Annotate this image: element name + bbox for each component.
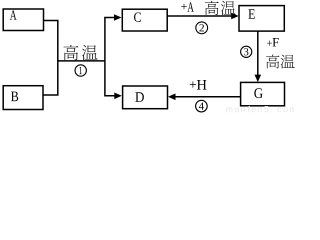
box G: [241, 82, 285, 105]
label gaowen for reaction 3: [266, 55, 295, 69]
box A: [3, 9, 43, 31]
label gaowen for reaction 2: [205, 1, 236, 15]
label +F: [267, 41, 272, 46]
letter E: [248, 9, 254, 19]
box C: [122, 9, 167, 31]
letter A: [10, 10, 17, 19]
label +H: [190, 81, 196, 87]
arrowhead into D right edge: [168, 94, 176, 101]
watermark manfen5.com: [226, 106, 296, 113]
arrowhead into G: [255, 75, 262, 83]
label circled 1: [75, 65, 86, 76]
letter C: [134, 12, 141, 21]
box B: [3, 86, 43, 110]
box E: [239, 6, 284, 32]
label circled 3: [241, 46, 252, 57]
wire: A and B to left trunk: [43, 21, 58, 96]
label circled 2: [196, 22, 208, 34]
wire: middle trunk (reaction 1): [57, 60, 105, 62]
box D: [123, 86, 168, 109]
wire: G to D (reaction 4): [174, 96, 240, 98]
letter B: [11, 92, 18, 102]
label +A: [181, 4, 187, 10]
label gaowen (hi-temp) for reaction 1: [64, 45, 98, 60]
letter D: [135, 92, 144, 102]
letter G: [254, 88, 262, 98]
label circled 4: [196, 100, 208, 112]
arrowhead into C: [114, 14, 122, 21]
wire: E down to G (reaction 3): [257, 31, 259, 76]
wire: C to E (reaction 2): [167, 15, 232, 17]
arrowhead into D left edge: [114, 93, 122, 100]
wire: right trunk splitting to C and D: [105, 18, 116, 96]
arrowhead into E: [231, 13, 239, 20]
